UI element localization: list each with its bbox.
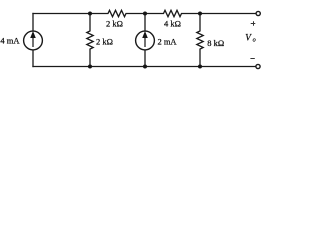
svg-text:2 kΩ: 2 kΩ xyxy=(96,36,113,46)
svg-text:o: o xyxy=(253,37,256,44)
svg-text:4 kΩ: 4 kΩ xyxy=(164,19,181,29)
svg-text:4 mA: 4 mA xyxy=(0,36,20,46)
svg-text:8 kΩ: 8 kΩ xyxy=(207,38,224,48)
svg-text:2 mA: 2 mA xyxy=(157,36,177,46)
svg-text:2 kΩ: 2 kΩ xyxy=(106,19,123,29)
